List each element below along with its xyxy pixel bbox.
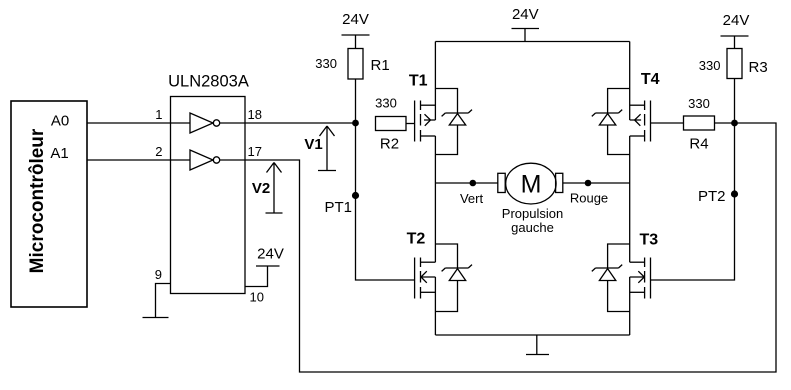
node Rouge (570, 180, 608, 206)
supply 24V at pin 10 (256, 246, 284, 267)
svg-text:T1: T1 (409, 73, 428, 90)
wire A1 to pin 2 (87, 159, 190, 161)
svg-text:T2: T2 (407, 231, 426, 248)
inverter gate 2 (190, 150, 220, 170)
resistor R2 (375, 96, 406, 153)
svg-text:M: M (521, 171, 542, 199)
wire R2 to T1 gate (406, 123, 415, 125)
body diode of T4 (592, 89, 630, 155)
wire motor right to T4 source (563, 182, 630, 184)
inverter gate 1 (190, 113, 220, 133)
svg-text:A1: A1 (50, 145, 68, 162)
node at R4 (731, 120, 738, 127)
svg-text:R4: R4 (689, 136, 708, 153)
svg-text:T3: T3 (639, 232, 658, 249)
svg-text:R3: R3 (749, 59, 768, 76)
svg-text:PT2: PT2 (698, 188, 726, 205)
svg-text:24V: 24V (342, 11, 369, 28)
wire pin 17 V2 route to right side (220, 123, 776, 372)
svg-text:Microcontrôleur: Microcontrôleur (27, 128, 48, 273)
motor M (498, 163, 563, 204)
transistor T2 (415, 183, 436, 335)
node PT2 (698, 188, 738, 205)
wire A0 to pin 1 (87, 122, 190, 124)
svg-text:R2: R2 (380, 136, 399, 153)
wire node down to T3 gate (651, 123, 735, 280)
microcontroller box U-MCU (11, 101, 87, 307)
wire R1 to node V1 (355, 79, 357, 123)
ground at bridge (526, 335, 549, 355)
body diode of T2 (435, 244, 472, 312)
svg-text:PT1: PT1 (324, 199, 352, 216)
ground at pin 9 (143, 317, 169, 319)
body diode of T1 (435, 89, 472, 155)
H-bridge bottom rail (435, 334, 629, 336)
wire pin 9 (156, 284, 171, 318)
svg-text:R1: R1 (371, 57, 390, 74)
svg-text:24V: 24V (257, 246, 284, 263)
svg-text:1: 1 (155, 107, 162, 122)
transistor T3 (630, 183, 651, 335)
H-bridge top rail (435, 41, 629, 43)
svg-text:Vert: Vert (460, 191, 484, 206)
node V1 junction (352, 120, 359, 127)
svg-text:V1: V1 (304, 136, 322, 153)
supply 24V above R1 (342, 11, 370, 49)
svg-text:330: 330 (315, 56, 337, 71)
resistor R1 (315, 49, 389, 80)
svg-text:2: 2 (155, 144, 162, 159)
resistor R4 (684, 96, 715, 153)
transistor T1 (415, 42, 436, 184)
node PT1 (324, 192, 359, 216)
svg-text:Rouge: Rouge (570, 191, 608, 206)
wire pin 10 (245, 266, 268, 287)
svg-text:18: 18 (248, 107, 262, 122)
wire pin 18 to node V1 (220, 122, 356, 124)
svg-text:330: 330 (375, 96, 397, 111)
svg-text:10: 10 (250, 290, 264, 305)
body diode of T3 (592, 244, 630, 312)
svg-text:T4: T4 (641, 71, 660, 88)
wire R4 to T4 gate (651, 122, 735, 124)
wire R3 to node PT2 top (734, 79, 736, 124)
svg-text:330: 330 (699, 58, 721, 73)
svg-text:V2: V2 (252, 180, 270, 197)
svg-text:24V: 24V (512, 6, 539, 23)
svg-text:Propulsion: Propulsion (502, 206, 563, 221)
svg-text:17: 17 (248, 144, 262, 159)
supply 24V top center (512, 6, 540, 41)
svg-text:A0: A0 (51, 113, 69, 130)
motor caption Propulsion gauche (502, 206, 563, 235)
resistor R3 (699, 49, 768, 79)
svg-text:24V: 24V (723, 12, 750, 29)
svg-text:ULN2803A: ULN2803A (168, 73, 249, 91)
wire T1 source to motor left (435, 182, 497, 184)
svg-text:9: 9 (155, 267, 162, 282)
svg-text:gauche: gauche (511, 220, 554, 235)
voltage arrow V1 (304, 126, 336, 171)
transistor T4 (630, 42, 651, 184)
supply 24V above R3 (721, 12, 750, 49)
svg-text:330: 330 (688, 96, 710, 111)
voltage arrow V2 (252, 163, 283, 214)
node Vert (460, 180, 484, 206)
driver U1 ULN2803A box (168, 73, 249, 294)
wire node V1 down to T2 gate (356, 123, 415, 280)
